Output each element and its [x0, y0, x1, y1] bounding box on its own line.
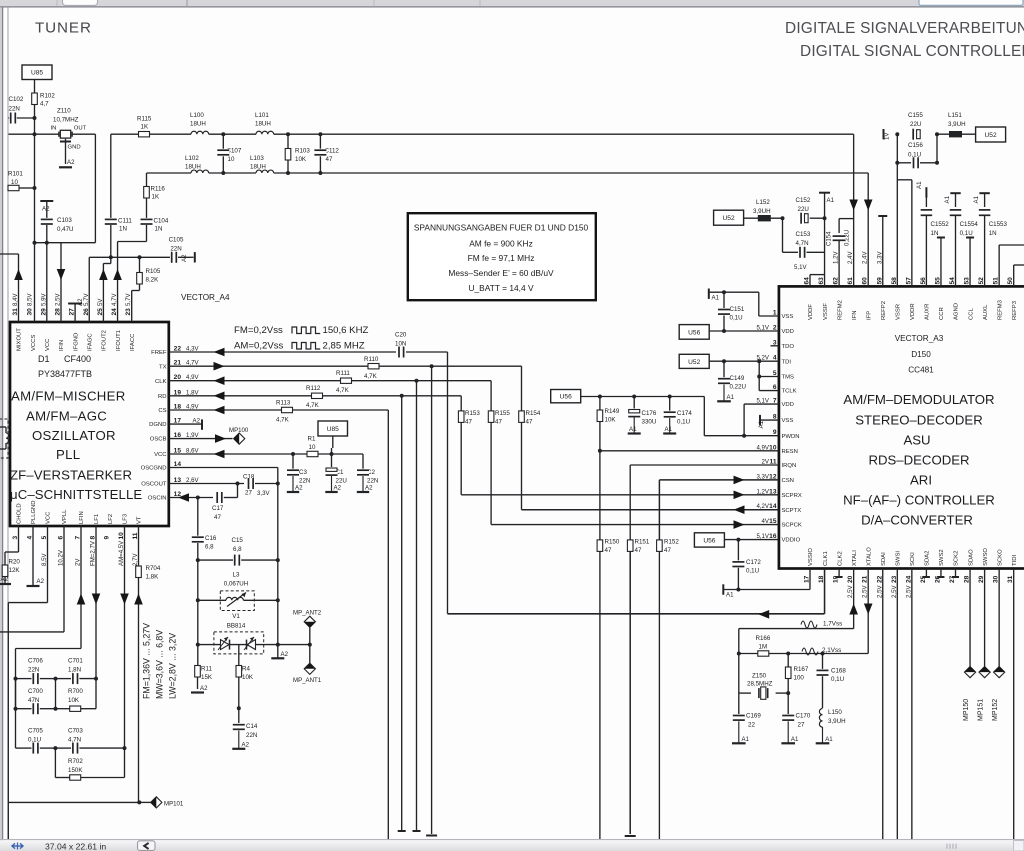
svg-text:R702: R702: [68, 758, 83, 765]
signal arrow CS: [214, 406, 225, 415]
svg-text:MP101: MP101: [164, 801, 184, 808]
supply tick A1 C1552: [925, 187, 927, 197]
wire RESN: [600, 450, 779, 452]
svg-text:R116: R116: [151, 186, 166, 193]
junction: [415, 379, 419, 383]
svg-text:VT: VT: [137, 516, 143, 524]
ground A2 V1 right: [277, 645, 279, 659]
svg-text:AM/FM–DEMODULATOR: AM/FM–DEMODULATOR: [843, 392, 994, 407]
svg-text:VDDR: VDDR: [910, 303, 916, 320]
svg-text:A2: A2: [365, 485, 373, 492]
signal arrow SCPCK: [734, 520, 745, 529]
svg-text:47N: 47N: [28, 697, 39, 704]
svg-text:VCCS: VCCS: [31, 335, 37, 351]
junction: [935, 132, 939, 136]
toolbar divider: [479, 0, 481, 6]
wire IFACC jog: [132, 290, 140, 292]
svg-text:IFAGC: IFAGC: [87, 333, 93, 351]
test point MP151: [984, 569, 986, 667]
junction: [286, 132, 290, 136]
svg-text:IFGND: IFGND: [73, 333, 79, 351]
svg-text:VPLL: VPLL: [62, 509, 68, 524]
svg-text:A1: A1: [916, 181, 923, 189]
svg-text:R149: R149: [605, 408, 620, 415]
junction: [318, 171, 322, 175]
svg-text:6,8: 6,8: [233, 546, 242, 553]
wire: [34, 80, 36, 94]
svg-text:10K: 10K: [242, 674, 254, 681]
terminal tick REFP2: [878, 215, 887, 217]
svg-text:AGND: AGND: [954, 303, 960, 320]
signal arrow IFOUT2: [99, 269, 108, 280]
svg-text:C176: C176: [642, 410, 657, 417]
wire: [34, 118, 36, 134]
svg-text:R700: R700: [68, 688, 83, 695]
mixer input fragment: [0, 419, 8, 458]
IC D150 left pin numbers: [756, 310, 776, 541]
svg-text:27: 27: [245, 490, 252, 497]
svg-text:VDDF: VDDF: [808, 304, 814, 320]
wire SCPRX bus: [461, 494, 779, 496]
svg-text:R101: R101: [8, 171, 23, 178]
connector box U56 VDDIO: [694, 533, 724, 547]
svg-text:27: 27: [798, 722, 805, 729]
signal arrow OSCIN: [178, 493, 189, 502]
junction: [54, 707, 58, 711]
junction: [821, 652, 825, 656]
svg-text:ARI: ARI: [910, 473, 932, 488]
junction: [196, 643, 200, 647]
svg-text:SPANNUNGSANGABEN FUER D1 UND D: SPANNUNGSANGABEN FUER D1 UND D150: [414, 223, 589, 233]
wire to antenna test points: [278, 644, 310, 646]
svg-text:LW=2,8V ... 3,2V: LW=2,8V ... 3,2V: [168, 633, 178, 699]
svg-text:C705: C705: [28, 728, 43, 735]
svg-text:NF–(AF–) CONTROLLER: NF–(AF–) CONTROLLER: [843, 493, 995, 508]
svg-text:XTALO: XTALO: [866, 547, 872, 566]
IC D150 bottom pin numbers: [804, 575, 1015, 583]
junction: [286, 171, 290, 175]
svg-text:VSS: VSS: [782, 418, 794, 424]
svg-text:R110: R110: [364, 356, 379, 363]
wire CCR stub: [937, 237, 945, 239]
svg-text:1,8N: 1,8N: [68, 667, 81, 674]
wire TIDI drop: [1013, 569, 1015, 840]
svg-text:C154: C154: [826, 231, 833, 246]
svg-text:0,1U: 0,1U: [831, 676, 844, 683]
wire CS: [169, 409, 388, 411]
IFGND tick: [68, 303, 82, 305]
svg-text:AM/FM–AGC: AM/FM–AGC: [26, 409, 107, 424]
junction: [935, 161, 939, 165]
toolbar white tab: [63, 0, 98, 5]
svg-text:100: 100: [794, 675, 805, 682]
test point MP101: [151, 797, 162, 808]
svg-text:U56: U56: [560, 394, 572, 401]
svg-text:R112: R112: [306, 385, 321, 392]
svg-text:A2: A2: [281, 651, 289, 658]
svg-text:SCKI: SCKI: [910, 552, 916, 566]
Z110 ground: [65, 139, 67, 164]
junction: [137, 800, 141, 804]
svg-text:C151: C151: [730, 306, 745, 313]
IC D1 bottom pin names: [17, 500, 143, 524]
svg-text:VDD: VDD: [782, 329, 794, 335]
svg-text:6,8: 6,8: [205, 544, 214, 551]
wire: [197, 600, 199, 644]
wire IFOUT2 jog: [110, 257, 112, 263]
svg-text:R1: R1: [308, 436, 316, 443]
connector box U52 TDI: [679, 354, 709, 368]
wire PWDN rail: [581, 396, 705, 398]
svg-text:R20: R20: [9, 559, 21, 566]
test point MP152: [998, 569, 1000, 667]
signal arrow CSN: [734, 476, 745, 485]
connector box U56 supply: [551, 390, 581, 403]
wire IF line 2 to D150: [274, 172, 869, 174]
svg-text:0,1U: 0,1U: [28, 737, 41, 744]
svg-text:22N: 22N: [170, 246, 181, 253]
junction: [786, 652, 790, 656]
wire XTALO line: [867, 569, 869, 654]
signal arrow FREF: [214, 348, 225, 357]
svg-text:A1: A1: [727, 394, 735, 401]
svg-text:TMS: TMS: [782, 375, 795, 381]
svg-text:RDS–DECODER: RDS–DECODER: [868, 453, 969, 468]
junction: [109, 255, 113, 259]
svg-text:4,7K: 4,7K: [364, 373, 378, 380]
test point MP_ANT1: [309, 645, 311, 663]
svg-text:A2: A2: [295, 485, 303, 492]
junction: [237, 706, 241, 710]
svg-text:C105: C105: [169, 237, 184, 244]
svg-text:VCC: VCC: [46, 511, 52, 524]
toolbar entry field: [919, 0, 1023, 5]
wire CLK drop: [416, 381, 418, 831]
svg-text:22N: 22N: [246, 732, 257, 739]
svg-text:47: 47: [526, 419, 533, 426]
svg-text:C15: C15: [232, 537, 244, 544]
signal arrow SCPRX: [734, 491, 745, 500]
svg-text:47: 47: [605, 547, 612, 554]
wire LF3 drop: [124, 526, 126, 748]
svg-text:MP_ANT2: MP_ANT2: [293, 610, 322, 617]
signal arrow TX: [214, 362, 225, 371]
wire VPLL rail: [63, 526, 65, 632]
svg-text:FREF: FREF: [151, 350, 167, 356]
svg-text:C155: C155: [908, 112, 923, 119]
junction: [276, 643, 280, 647]
junction: [757, 375, 761, 379]
svg-text:0,1U: 0,1U: [677, 419, 690, 426]
sine label 2,1Vss: [802, 648, 818, 655]
svg-text:Mess–Sender E’ = 60 dB/uV: Mess–Sender E’ = 60 dB/uV: [448, 268, 554, 278]
svg-text:10K: 10K: [68, 697, 80, 704]
svg-text:10: 10: [228, 156, 235, 163]
svg-text:22N: 22N: [28, 667, 39, 674]
svg-text:1N: 1N: [931, 230, 939, 237]
svg-text:TX: TX: [159, 364, 167, 370]
svg-text:4,7: 4,7: [40, 101, 49, 108]
wire: [332, 436, 334, 448]
svg-text:L150: L150: [828, 709, 842, 716]
svg-text:U85: U85: [31, 70, 43, 77]
svg-text:30: 30: [27, 308, 34, 316]
svg-text:1K: 1K: [152, 194, 160, 201]
svg-text:TDO: TDO: [782, 344, 795, 350]
signal arrow IFN: [849, 200, 858, 211]
svg-text:PLLGND: PLLGND: [31, 500, 37, 524]
IC D1 top pin numbers: [12, 293, 132, 316]
svg-text:1,8K: 1,8K: [146, 574, 160, 581]
svg-text:L103: L103: [250, 155, 264, 162]
junction: [757, 359, 761, 363]
wire IFIN drop: [60, 243, 62, 322]
svg-text:R167: R167: [794, 666, 809, 673]
svg-text:4,7K: 4,7K: [306, 402, 320, 409]
svg-text:CS: CS: [158, 408, 166, 414]
wire MIXOUT: [0, 253, 19, 255]
svg-text:SCPCK: SCPCK: [782, 523, 802, 529]
svg-text:AM fe = 900 KHz: AM fe = 900 KHz: [469, 238, 533, 248]
wire IFN drop: [853, 134, 855, 286]
junction: [138, 255, 142, 259]
connector box U52 out: [976, 127, 1006, 142]
svg-text:1,7Vss: 1,7Vss: [823, 621, 842, 628]
wire LFIN rail: [80, 526, 82, 649]
svg-text:L102: L102: [185, 155, 199, 162]
svg-text:R166: R166: [756, 635, 771, 642]
svg-text:A2: A2: [67, 159, 75, 166]
svg-text:0,067UH: 0,067UH: [224, 581, 248, 588]
svg-text:SDA2: SDA2: [925, 551, 931, 566]
svg-text:RD: RD: [158, 394, 167, 400]
svg-text:IFN: IFN: [852, 311, 858, 321]
wire FREF drop to XTAL line: [447, 352, 449, 614]
svg-text:3,9UH: 3,9UH: [948, 121, 966, 128]
svg-text:22U: 22U: [336, 478, 347, 485]
svg-text:L101: L101: [255, 112, 269, 119]
svg-text:C103: C103: [57, 217, 72, 224]
svg-text:0,1U: 0,1U: [746, 568, 759, 575]
svg-text:μC–SCHNITTSTELLE: μC–SCHNITTSTELLE: [10, 487, 142, 502]
junction: [276, 598, 280, 602]
svg-text:R704: R704: [146, 565, 161, 572]
wire CSN: [659, 479, 779, 481]
capacitor C103 feed: [40, 200, 53, 202]
IC D1 right pin numbers: [174, 346, 200, 499]
signal arrow OSCB: [215, 434, 226, 443]
svg-text:AM/FM–MISCHER: AM/FM–MISCHER: [11, 389, 126, 404]
svg-text:1M: 1M: [759, 644, 768, 651]
wire: [7, 802, 9, 839]
wire MP101 line: [8, 801, 139, 803]
svg-text:CF400: CF400: [64, 354, 91, 364]
window top toolbar strip: [0, 0, 1024, 6]
svg-text:R154: R154: [526, 410, 541, 417]
signal arrow reference: [758, 610, 769, 619]
wire VCC5 rail: [47, 526, 49, 603]
svg-text:9: 9: [104, 536, 111, 540]
svg-text:C169: C169: [746, 713, 761, 720]
svg-text:U56: U56: [688, 329, 700, 336]
svg-text:A1: A1: [758, 420, 765, 428]
wire TCLK jumper: [758, 377, 760, 391]
wire: [197, 560, 199, 600]
wire FREF: [169, 351, 396, 353]
svg-text:FM=1,36V ... 5,27V: FM=1,36V ... 5,27V: [142, 623, 152, 699]
svg-text:A1: A1: [791, 736, 799, 743]
svg-text:OSCOUT: OSCOUT: [141, 482, 167, 488]
svg-text:22N: 22N: [367, 478, 378, 485]
svg-text:U52: U52: [985, 132, 997, 139]
svg-text:8,2K: 8,2K: [146, 277, 160, 284]
wire RD: [169, 395, 461, 397]
svg-text:A2: A2: [193, 418, 201, 425]
svg-text:PWDN: PWDN: [782, 434, 800, 440]
svg-text:C112: C112: [325, 148, 340, 155]
wire IRQN: [630, 464, 779, 466]
svg-text:C104: C104: [154, 218, 169, 225]
svg-text:CC481: CC481: [908, 366, 934, 375]
svg-text:Z150: Z150: [752, 673, 767, 680]
wire: [15, 679, 17, 709]
signal arrow XTALI: [849, 604, 858, 615]
svg-text:C174: C174: [677, 410, 692, 417]
svg-text:1N: 1N: [989, 230, 997, 237]
junction: [318, 132, 322, 136]
junction: [14, 707, 18, 711]
IC D150 bottom pin voltages: [847, 585, 912, 598]
svg-text:1N: 1N: [119, 226, 127, 233]
svg-text:10,7MHZ: 10,7MHZ: [53, 117, 79, 124]
junction: [33, 186, 37, 190]
svg-text:Z110: Z110: [57, 108, 71, 115]
wire: [46, 225, 48, 322]
svg-text:REFM2: REFM2: [837, 300, 843, 320]
svg-text:VSSIF: VSSIF: [823, 303, 829, 320]
junction: [236, 482, 240, 486]
svg-text:C1554: C1554: [960, 221, 979, 228]
wire: [896, 134, 898, 163]
svg-text:1K: 1K: [141, 123, 149, 130]
voltage info box SPANNUNGSANGABEN: [408, 213, 596, 300]
toolbar divider: [56, 0, 58, 6]
svg-text:OSZILLATOR: OSZILLATOR: [32, 428, 116, 443]
wire REFP3: [1013, 265, 1015, 286]
svg-text:C111: C111: [118, 218, 132, 225]
wire IF line 1 to D150: [274, 133, 854, 135]
svg-text:DGND: DGND: [149, 422, 166, 428]
wire CLK: [169, 380, 491, 382]
svg-text:U_BATT = 14,4 V: U_BATT = 14,4 V: [468, 283, 534, 293]
supply tick A1 C1553: [979, 192, 989, 194]
svg-text:22U: 22U: [798, 206, 809, 213]
svg-text:C1552: C1552: [931, 221, 950, 228]
svg-text:U52: U52: [723, 215, 735, 222]
rotated tuning voltage labels: [142, 623, 178, 699]
junction: [742, 434, 746, 438]
svg-text:ASU: ASU: [903, 433, 930, 448]
svg-text:L152: L152: [756, 199, 770, 206]
svg-text:AM=0,2Vss: AM=0,2Vss: [234, 341, 284, 352]
svg-text:4,7N: 4,7N: [68, 737, 81, 744]
test point MP150: [969, 569, 971, 667]
svg-text:C170: C170: [796, 713, 811, 720]
ground PLLGND: [32, 526, 34, 586]
svg-text:330U: 330U: [642, 419, 657, 426]
connector box U85b: [318, 421, 348, 436]
junction: [276, 558, 280, 562]
svg-text:A1: A1: [973, 195, 980, 203]
wire REFM3: [998, 245, 1000, 286]
pin stub CLK2: [838, 569, 840, 578]
connector box U85: [22, 65, 52, 80]
svg-text:CLK2: CLK2: [837, 551, 843, 566]
svg-text:47: 47: [326, 156, 333, 163]
svg-text:3,9UH: 3,9UH: [753, 208, 771, 215]
svg-text:U56: U56: [703, 537, 715, 544]
svg-text:A2: A2: [37, 578, 45, 585]
svg-text:R111: R111: [336, 370, 350, 377]
svg-text:IFP: IFP: [866, 311, 872, 320]
svg-text:BB814: BB814: [227, 623, 246, 630]
toolbar divider: [373, 0, 375, 6]
svg-text:C1553: C1553: [989, 221, 1008, 228]
svg-text:SWSO: SWSO: [983, 548, 989, 566]
svg-text:15K: 15K: [201, 674, 213, 681]
wire CS drop: [387, 410, 389, 839]
svg-text:C156: C156: [908, 142, 923, 149]
svg-text:4,7N: 4,7N: [796, 240, 809, 247]
wire: [209, 133, 256, 135]
junction: [722, 329, 726, 333]
svg-text:A2: A2: [181, 254, 188, 262]
svg-text:U85: U85: [327, 426, 339, 433]
signal arrow IFOUT1: [113, 269, 122, 280]
svg-text:IRQN: IRQN: [782, 463, 797, 469]
svg-text:FM fe = 97,1 MHz: FM fe = 97,1 MHz: [468, 253, 535, 263]
svg-text:SWS2: SWS2: [939, 549, 945, 566]
supply tick A1 C1554: [950, 192, 960, 194]
wire TDI: [709, 360, 779, 362]
svg-text:A2: A2: [200, 685, 208, 692]
svg-text:12K: 12K: [9, 567, 21, 574]
svg-text:A1: A1: [825, 736, 833, 743]
svg-text:L151: L151: [948, 112, 962, 119]
signal arrow XTALO: [864, 604, 873, 615]
supply tick A1 VSS1: [708, 289, 710, 299]
svg-text:R153: R153: [465, 410, 480, 417]
svg-text:IN: IN: [51, 126, 57, 132]
IC D150 top pin voltages: [833, 251, 884, 264]
wire CLK1 reference line: [824, 569, 826, 614]
svg-text:R103: R103: [295, 148, 310, 155]
svg-text:4,7K: 4,7K: [336, 387, 350, 394]
svg-text:D1: D1: [38, 354, 50, 364]
wire Z110 out drop: [94, 134, 96, 243]
svg-text:MP_ANT1: MP_ANT1: [293, 677, 322, 684]
svg-text:CLK: CLK: [155, 379, 167, 385]
svg-text:CSN: CSN: [782, 478, 794, 484]
IC D1 right pin names: [141, 350, 168, 502]
svg-text:C17: C17: [212, 505, 224, 512]
svg-text:18UH: 18UH: [185, 164, 201, 171]
IC D1 internal labels: [10, 354, 142, 502]
signal arrow LF1: [92, 594, 101, 605]
status bar: [0, 839, 1024, 841]
IC D1 bottom pin numbers: [12, 532, 139, 566]
junction: [276, 482, 280, 486]
